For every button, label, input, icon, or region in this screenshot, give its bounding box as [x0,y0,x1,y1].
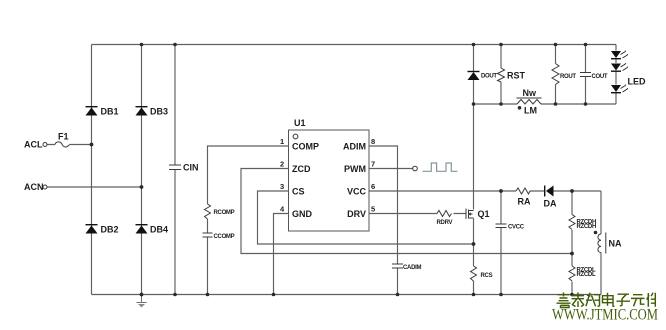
svg-text:Nw: Nw [523,88,537,98]
LED D2 rays [621,63,629,71]
LED D1 rays [621,51,629,59]
diode DB2 [86,226,98,234]
svg-text:RCOMP: RCOMP [214,210,235,216]
svg-text:RZCDH: RZCDH [577,224,597,230]
svg-text:DB2: DB2 [101,225,119,235]
resistor RA (horizontal) [516,188,530,194]
svg-text:ACL: ACL [24,140,43,150]
svg-text:DB1: DB1 [101,107,119,117]
waveform PWM [423,163,458,171]
phase dot LM [518,106,522,110]
fuse F1 [55,142,70,147]
svg-text:RA: RA [518,197,531,207]
wire COUT column [585,45,587,105]
wire ACN input [47,186,142,188]
svg-text:WWW.JTMIC.COM: WWW.JTMIC.COM [552,307,658,324]
capacitor CADIM [392,264,403,268]
wire COMP pin1 to RCOMP column [208,146,289,295]
svg-text:CS: CS [292,187,305,197]
diode DA [546,186,554,197]
svg-text:VCC: VCC [347,187,367,197]
capacitor CVCC [496,224,507,228]
svg-text:NA: NA [609,239,622,249]
ground [137,295,147,308]
svg-text:DB3: DB3 [150,107,168,117]
svg-text:DA: DA [544,199,557,209]
svg-text:5: 5 [371,205,375,214]
watermark CJK line (drawn strokes) [557,293,656,308]
phase dot NA [594,231,598,235]
wire ADIM pin8 to CADIM column [369,146,398,295]
svg-text:Q1: Q1 [478,209,490,219]
svg-text:RCS: RCS [481,273,493,279]
resistor RST [498,68,505,82]
LED D3 [611,85,621,92]
wire bottom rail [92,294,602,296]
svg-text:CCOMP: CCOMP [214,234,235,240]
wire DB3/DB4 column [141,45,143,295]
svg-text:LED: LED [628,77,647,87]
resistor R2CDH [569,215,575,230]
terminal ACN [43,185,47,189]
resistor RDRV (horizontal) [437,211,452,217]
wire top rail [92,44,617,46]
svg-text:CIN: CIN [183,163,199,173]
capacitor CCOMP [203,233,213,237]
svg-text:PWM: PWM [344,164,366,174]
svg-text:3: 3 [280,182,284,191]
svg-text:F1: F1 [58,132,69,142]
junction dots secondary line [472,102,476,106]
junction dots VCC line [499,189,503,193]
svg-text:ROUT: ROUT [560,74,576,80]
wire DRV pin5 to RDRV and gate [369,213,466,215]
svg-text:DOUT: DOUT [481,74,497,80]
svg-text:RZCDL: RZCDL [577,272,596,278]
svg-text:GND: GND [292,209,313,219]
junction ACN [140,185,144,189]
wire secondary line y=104 [474,103,617,105]
wire CS pin3 under IC to Q1 source [258,191,474,244]
terminal PWM output [413,166,418,171]
svg-text:CVCC: CVCC [508,225,525,231]
svg-text:RDRV: RDRV [437,220,453,226]
wire R2CDH/R2CDL column [571,191,573,295]
svg-text:COMP: COMP [292,142,319,152]
transformer winding LM (primary) [517,98,542,104]
IC U1 body [289,130,370,231]
junction ZCD divider [570,252,574,256]
wire VCC pin6 across to aux supply line [369,190,601,192]
transistor Q1 body [466,209,474,220]
diode DB3 [136,108,148,116]
svg-text:COUT: COUT [592,74,608,80]
svg-text:1: 1 [280,137,284,146]
wire GND pin4 to bottom rail [274,214,289,295]
diode DB1 [86,108,98,116]
transformer winding NA (aux) [598,233,606,254]
svg-text:ACN: ACN [24,182,44,192]
svg-text:8: 8 [371,137,375,146]
wire RST / CVCC column [500,45,502,295]
wire CIN column [174,45,176,295]
LED D3 rays [621,85,629,93]
diode DB4 [136,226,148,234]
svg-text:6: 6 [371,182,375,191]
wire PWM pin7 to terminal [369,168,413,170]
svg-text:DRV: DRV [347,209,366,219]
junction ACL [90,143,94,147]
diode DOUT [468,72,480,80]
resistor R2CDL [569,266,575,281]
svg-text:7: 7 [371,160,375,169]
junction dots bottom rail [140,293,144,297]
wire DOUT / Q1 / RCS column [473,45,475,295]
wire left column (DB1/DB2 branch) [91,45,93,295]
junction dots top rail [140,43,144,47]
svg-text:DB4: DB4 [150,225,168,235]
svg-text:ADIM: ADIM [343,142,366,152]
svg-text:2: 2 [280,160,284,169]
capacitor COUT [580,73,591,77]
wire ZCD pin2 down and right to divider [241,169,572,254]
junction CS / Q1 source [472,242,476,246]
svg-text:ZCD: ZCD [292,164,311,174]
terminal ACL [43,143,47,147]
svg-text:CADIM: CADIM [403,265,421,271]
svg-text:RST: RST [507,71,526,81]
wire ROUT column [555,45,557,105]
resistor RCOMP [205,204,211,219]
LED D2 [611,64,621,71]
svg-text:LM: LM [524,106,537,116]
wire NA column [600,191,602,295]
wire ACL input [47,144,92,146]
resistor ROUT [552,64,559,85]
svg-text:U1: U1 [294,118,306,128]
LED D1 [611,51,621,58]
capacitor CIN [169,165,181,170]
wire LED column [615,45,617,105]
resistor RCS [471,266,477,281]
IC U1 pin1 mark [293,134,298,139]
